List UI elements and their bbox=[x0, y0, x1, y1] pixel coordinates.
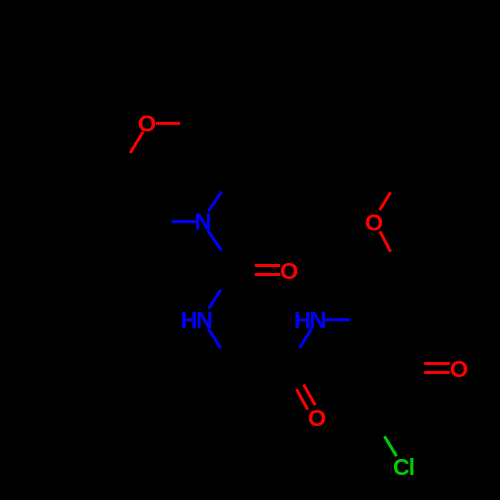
bond O3-CH3 (methoxy top-right, up-right half near O) bbox=[380, 192, 391, 210]
svg-text:Cl: Cl bbox=[393, 454, 414, 480]
svg-text:O: O bbox=[138, 111, 156, 137]
bond O1-CH3 (methoxy top-left, half near O) bbox=[156, 122, 180, 125]
bond C=O2 urea double bond upper line (half near O) bbox=[255, 264, 280, 267]
bond N1-aryl (up-right, half near N) bbox=[208, 192, 221, 212]
bond C=O4 amide double bond left line (half near O) bbox=[297, 389, 308, 409]
bond C=O2 urea double bond lower line (half near O) bbox=[255, 273, 280, 276]
svg-text:HN: HN bbox=[294, 307, 325, 333]
bond N2-CH (down-right, half near N) bbox=[208, 329, 221, 348]
bond C=O5 ketone double bond upper line (half near O) bbox=[424, 362, 450, 365]
svg-text:HN: HN bbox=[181, 307, 212, 333]
bond O1-ring C (down-left, half near O) bbox=[130, 132, 143, 153]
bond N2-C(=O) urea (up-right, half near N) bbox=[209, 290, 221, 309]
bond C=O5 ketone double bond lower line (half near O) bbox=[424, 371, 450, 374]
svg-text:O: O bbox=[365, 210, 383, 236]
svg-text:N: N bbox=[195, 209, 212, 235]
svg-text:O: O bbox=[280, 258, 298, 284]
bond N3-C(=O) amide (down-left, half near N) bbox=[300, 328, 312, 348]
bond C=O4 amide double bond right line (half near O) bbox=[304, 385, 316, 406]
bond O3-CH2 (down-right, half near O) bbox=[380, 231, 391, 251]
svg-text:O: O bbox=[308, 405, 326, 431]
bond CH2-Cl (half near Cl) bbox=[385, 436, 397, 456]
svg-text:O: O bbox=[450, 356, 468, 382]
bond N1-C(=O) urea (down-right, half near N) bbox=[208, 230, 222, 251]
bond N1-CH3 (left horizontal, half near N) bbox=[172, 220, 196, 223]
bond N3-CH right chain (horizontal, half near N) bbox=[325, 318, 350, 321]
